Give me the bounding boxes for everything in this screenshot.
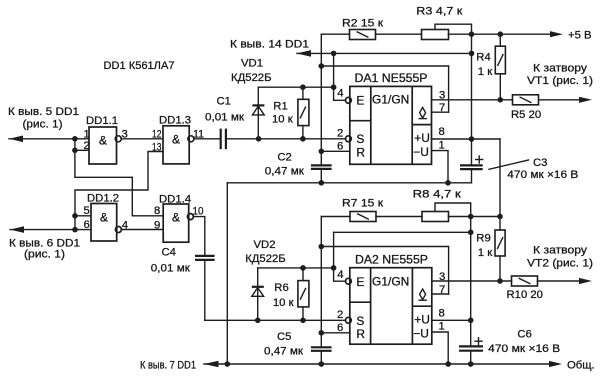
wire DD1.3 pin13 to node B [75,152,163,230]
svg-text:E: E [356,275,364,289]
wire discharge to pin 7 DA2 [321,247,448,295]
svg-text:К затвору: К затвору [533,245,587,257]
capacitor C1 [195,96,245,150]
svg-text:−U: −U [413,145,429,159]
svg-text:S: S [356,314,364,328]
junction VD1 anode [256,136,262,142]
svg-text:2: 2 [84,140,90,152]
svg-text:R7 15 к: R7 15 к [342,198,383,210]
junction R3 node [469,31,475,37]
svg-text:Общ.: Общ. [567,359,595,371]
svg-text:R8 4,7 к: R8 4,7 к [413,188,461,200]
junction pin2 [72,148,78,154]
junction line A R-input [319,149,325,155]
resistor R4 [476,34,505,100]
svg-text:470 мк ×16 В: 470 мк ×16 В [488,343,560,355]
svg-text:5: 5 [84,205,90,217]
junction supply x500 [497,214,503,220]
wire pin5 stub [75,215,91,217]
svg-text:DD1.3: DD1.3 [159,115,191,127]
junction E branch top [331,51,337,57]
junction R4 top [498,31,504,37]
svg-text:470 мк ×16 В: 470 мк ×16 В [507,169,578,181]
arrow вывод 5 [9,136,23,143]
gate DD1.2 [84,193,128,242]
svg-text:К выв. 6 DD1: К выв. 6 DD1 [9,237,80,249]
junction VD2 anode [255,318,261,324]
svg-text:R6: R6 [274,282,288,294]
resistor R3 [416,5,558,39]
svg-text:1 к: 1 к [478,66,492,78]
wire DD1.2 out to DD1.4 pin 9 [122,229,163,231]
junction line A2 R-input [319,330,325,336]
svg-text:8: 8 [439,307,445,319]
svg-text:R3 4,7 к: R3 4,7 к [416,5,462,17]
gate DD1.1 [84,115,128,164]
wire R input [321,150,350,152]
svg-text:E: E [356,94,364,108]
resistor R10 [507,276,588,301]
junction rail C5 [319,361,325,367]
svg-text:C1: C1 [217,96,231,108]
arrow вывод 6 [10,226,24,233]
resistor R6 [273,268,309,320]
junction R6 bottom [300,318,306,324]
wire pin 8 DA2 [432,319,471,321]
capacitor C4 [151,246,215,320]
junction E branch mid [331,84,337,90]
svg-text:12: 12 [152,128,162,140]
svg-text:6: 6 [84,219,90,231]
junction pin1 [72,136,78,142]
svg-text:VT2 (рис. 1): VT2 (рис. 1) [527,257,593,269]
wire pin 3 to R5 [432,99,513,101]
wire вывод 14 [297,52,472,54]
ground wire upper [227,182,471,184]
junction R1 bottom [300,136,306,142]
svg-text:R5 20: R5 20 [511,109,541,121]
junction line A wire2 [319,63,325,69]
svg-text:C5: C5 [277,331,291,343]
wire pin 1 DA2 to common [432,332,448,364]
junction pin6 [72,227,78,233]
svg-text:9: 9 [154,219,160,231]
svg-text:DD1.1: DD1.1 [86,115,118,127]
svg-text:G1/GN: G1/GN [372,93,409,107]
diode VD2 [245,239,286,320]
wire E2 branch vertical [334,232,346,281]
gate DD1.4 [154,194,204,243]
junction R4 bottom [498,97,504,103]
junction pin5 [72,213,78,219]
svg-text:+U: +U [414,131,430,145]
output arrow VT1 [579,97,592,103]
svg-text:7: 7 [439,284,445,296]
capacitor C3 [460,156,578,183]
diode VD1 [231,57,272,139]
svg-text:C3: C3 [533,157,547,169]
svg-text:0,47 мк: 0,47 мк [265,166,304,178]
svg-text:КД522Б: КД522Б [245,253,286,265]
junction C2 gnd [319,180,325,186]
wire вывод 6 [10,229,91,231]
gate DD1.3 [152,115,204,164]
capacitor C6 [459,328,560,364]
node pins 1-2 vertical [75,139,163,216]
wire +5 vertical to C3 [471,34,473,164]
svg-text:DD1 К561ЛА7: DD1 К561ЛА7 [104,60,175,72]
arrow вывод 14 [297,50,312,57]
svg-text:S: S [356,132,364,146]
svg-text:C4: C4 [162,246,176,258]
junction pin8 C3 branch [469,136,475,142]
wire R input DA2 [321,332,350,334]
svg-text:3: 3 [439,271,445,283]
junction line A2 wire2 [319,244,325,250]
svg-text:1: 1 [439,139,445,151]
junction rail x227 [225,361,231,367]
svg-text:4: 4 [337,269,343,281]
svg-text:(рис. 1): (рис. 1) [24,249,65,261]
svg-text:C2: C2 [277,152,291,164]
wire line A2 discharge node [320,217,322,348]
capacitor C2 [265,152,332,183]
svg-text:−U: −U [413,327,429,341]
svg-text:8: 8 [154,205,160,217]
wire VD2/R6 top rail [258,267,334,269]
junction R6 top [300,265,306,271]
wire line A discharge node [320,34,322,165]
common rail [204,363,558,365]
svg-text:К выв. 7 DD1: К выв. 7 DD1 [140,359,196,371]
svg-text:R9: R9 [476,233,490,245]
svg-text:R10 20: R10 20 [507,289,543,301]
svg-text:+5 В: +5 В [568,29,592,41]
svg-text:&: & [99,133,107,147]
wire C1 to DA1 S input [227,138,346,140]
wire gnd down to common [226,183,228,364]
svg-text:(рис. 1): (рис. 1) [23,119,63,131]
svg-text:&: & [172,133,180,147]
junction pin1 gnd [445,180,451,186]
wire pin 7 stub [432,111,449,113]
wire supply vertical to C6 [470,217,472,347]
svg-text:К выв. 5 DD1: К выв. 5 DD1 [8,106,79,118]
svg-text:0,01 мк: 0,01 мк [151,262,190,274]
junction R8 tap node [468,214,474,220]
power rail +5 В [550,31,563,37]
wire discharge to pin 7 [321,66,448,112]
junction R9 bottom [497,278,503,284]
output arrow VT2 [579,278,592,284]
resistor R8 [413,188,500,221]
wire E branch vertical [334,53,346,100]
wire pin 7 stub DA2 [432,293,449,295]
svg-text:10 к: 10 к [273,297,294,309]
svg-text:R1: R1 [273,100,287,112]
svg-text:10: 10 [193,206,204,218]
svg-text:10 к: 10 к [272,114,293,126]
svg-text:R: R [356,145,365,159]
svg-text:VD2: VD2 [254,239,276,251]
resistor R2 [321,18,421,40]
svg-text:VD1: VD1 [241,57,263,69]
junction R1 top [300,84,306,90]
wire вывод 5 [9,138,89,140]
svg-text:&: & [100,211,108,225]
svg-text:G1/GN: G1/GN [372,274,409,288]
wire pin2 stub [75,149,89,151]
wire pin 8 [432,138,501,140]
wire DD1.1 out to DD1.3 pin 12 [122,138,163,140]
junction rail C6 [468,361,474,367]
svg-text:DA1 NE555P: DA1 NE555P [355,71,428,85]
arrow вывод 7 [204,361,219,368]
resistor R1 [272,87,309,139]
svg-text:&: & [172,211,180,225]
svg-text:0,01 мк: 0,01 мк [205,111,244,123]
svg-text:R: R [356,327,365,341]
arrow Общ [549,361,562,367]
svg-text:1: 1 [84,128,90,140]
svg-text:7: 7 [439,102,445,114]
wire supply branch DA2 [334,231,471,233]
svg-text:R2 15 к: R2 15 к [342,18,383,30]
junction supply branch [468,230,474,236]
svg-text:R4: R4 [476,52,490,64]
wire pin 3 to R10 [432,280,512,282]
resistor R7 [321,198,422,222]
junction pin8 DA2 [468,318,474,324]
svg-text:1: 1 [439,321,445,333]
wire VD1/R1 top rail [258,86,333,88]
capacitor C5 [264,331,332,364]
svg-text:C6: C6 [517,328,531,340]
svg-text:К выв. 14 DD1: К выв. 14 DD1 [230,38,309,50]
junction E2 branch mid [331,265,337,271]
svg-text:DA2 NE555P: DA2 NE555P [355,252,428,266]
wire +U down to DA2 supply [499,139,501,230]
wire C4 to DA2 S input [205,319,346,321]
svg-text:К затвору: К затвору [533,63,587,75]
op-amp U2 timer DA2 NE555P [337,252,445,344]
wire pin 1 to ground [432,151,449,183]
junction rail pin1 DA2 [445,361,451,367]
junction vdd rail [469,51,475,57]
wire DD1.4 out down to C4 [194,217,205,256]
svg-text:+U: +U [414,312,430,326]
svg-text:VT1 (рис. 1): VT1 (рис. 1) [527,75,593,87]
op-amp U1 timer DA1 NE555P [337,71,445,164]
svg-text:2: 2 [337,128,343,140]
resistor R5 [511,95,587,121]
svg-text:3: 3 [439,89,445,101]
svg-text:2: 2 [337,309,343,321]
svg-text:КД522Б: КД522Б [231,72,272,84]
svg-text:8: 8 [439,126,445,138]
svg-text:4: 4 [337,88,343,100]
resistor R9 [476,230,505,281]
svg-text:0,47 мк: 0,47 мк [264,345,303,357]
svg-text:1 к: 1 к [478,247,492,259]
